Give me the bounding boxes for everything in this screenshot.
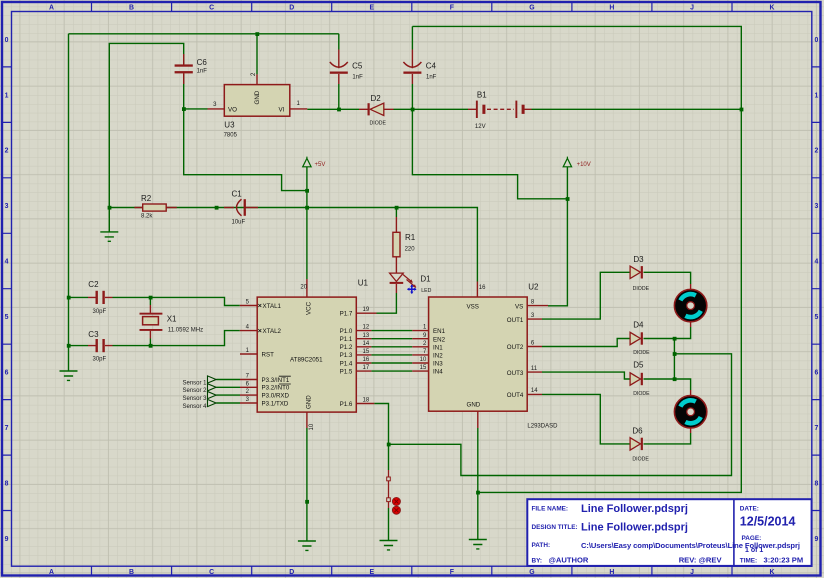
svg-text:7: 7	[814, 425, 818, 432]
svg-text:VSS: VSS	[467, 304, 479, 311]
wire ground top rail	[69, 33, 339, 35]
svg-text:15: 15	[363, 349, 370, 355]
wire D4-D5 mid link	[673, 339, 675, 380]
svg-text:Sensor 1: Sensor 1	[182, 380, 207, 386]
svg-text:P1.2: P1.2	[340, 344, 353, 351]
svg-text:GND: GND	[254, 90, 261, 104]
svg-text:A: A	[49, 4, 54, 11]
svg-text:F: F	[450, 569, 454, 576]
svg-text:XTAL1: XTAL1	[263, 303, 282, 310]
wire OUT1 to D3	[542, 272, 631, 319]
svg-text:H: H	[609, 4, 614, 11]
wire OUT4 to D6	[542, 394, 631, 444]
svg-text:PATH:: PATH:	[532, 542, 551, 549]
motor driver U2 L293D	[412, 282, 558, 430]
svg-text:GND: GND	[467, 402, 481, 409]
svg-text:G: G	[529, 569, 534, 576]
sensor 2 input	[182, 384, 216, 394]
svg-text:11: 11	[531, 366, 538, 372]
wire +5V rail	[109, 208, 477, 282]
wire C4 top rail	[412, 26, 741, 109]
wire XTAL1 net	[69, 297, 240, 305]
sensor 1 input	[182, 376, 216, 386]
capacitor C1 10uF	[224, 189, 258, 225]
svg-text:5: 5	[5, 314, 9, 321]
motor 1	[674, 284, 706, 327]
sensor 3 input	[182, 392, 216, 402]
svg-text:REV: @REV: REV: @REV	[679, 555, 723, 564]
svg-text:U3: U3	[224, 120, 235, 129]
title block	[527, 499, 811, 566]
svg-text:6: 6	[5, 370, 9, 377]
svg-text:P3.1/TXD: P3.1/TXD	[262, 400, 289, 407]
svg-text:3:20:23 PM: 3:20:23 PM	[764, 555, 804, 564]
svg-text:+10V: +10V	[577, 162, 591, 168]
power +5V	[303, 157, 326, 168]
svg-text:Sensor 2: Sensor 2	[182, 388, 207, 394]
wire OUT2 to D4	[542, 339, 631, 347]
wire U1 GND to ground	[306, 428, 308, 541]
svg-text:R1: R1	[405, 233, 416, 242]
svg-text:OUT1: OUT1	[507, 317, 524, 324]
svg-text:9: 9	[5, 536, 9, 543]
svg-text:8: 8	[814, 480, 818, 487]
diode D2	[359, 94, 394, 127]
svg-text:G: G	[529, 4, 534, 11]
wire motor2 bottom to D6	[644, 433, 691, 444]
svg-text:D5: D5	[633, 361, 644, 370]
svg-text:C1: C1	[232, 189, 243, 198]
svg-text:5: 5	[814, 314, 818, 321]
wire C5 bottom to main rail	[338, 34, 340, 110]
svg-text:11.0592 MHz: 11.0592 MHz	[168, 328, 203, 334]
wire D5 to motor2	[644, 379, 691, 390]
svg-text:VS: VS	[515, 304, 523, 311]
svg-text:DIODE: DIODE	[633, 286, 650, 292]
wire U1 P1.0..P1.5 to U2	[371, 331, 412, 372]
wire +10V vertical to U2 VS	[548, 167, 567, 306]
capacitor C5 1nF	[330, 50, 363, 85]
svg-text:Sensor 4: Sensor 4	[182, 404, 207, 410]
svg-text:8.2k: 8.2k	[141, 213, 153, 219]
push button	[387, 470, 401, 514]
svg-text:OUT2: OUT2	[507, 344, 524, 351]
svg-text:OUT4: OUT4	[507, 392, 524, 399]
diode D3	[630, 255, 649, 292]
wire P1.6 to button and motor mid	[374, 354, 731, 476]
svg-text:2: 2	[5, 148, 9, 155]
wire motor1 bottom to D4 line	[644, 327, 691, 339]
svg-text:OUT3: OUT3	[507, 370, 524, 377]
svg-text:D3: D3	[633, 255, 644, 264]
svg-text:C6: C6	[197, 58, 208, 67]
svg-text:GND: GND	[306, 395, 313, 409]
svg-text:R2: R2	[141, 194, 152, 203]
svg-text:19: 19	[363, 307, 370, 313]
wire XTAL2 net	[69, 331, 240, 346]
svg-text:30pF: 30pF	[93, 309, 107, 315]
wire button to ground	[388, 508, 390, 541]
svg-text:FILE NAME:: FILE NAME:	[532, 505, 569, 512]
svg-text:12: 12	[363, 325, 370, 331]
svg-text:P3.2/INT0: P3.2/INT0	[262, 385, 290, 392]
svg-text:10: 10	[309, 423, 315, 430]
capacitor C3 30pF	[88, 330, 113, 363]
wire sensor 2 to P3.2	[216, 386, 240, 388]
svg-text:220: 220	[405, 247, 416, 253]
svg-text:IN1: IN1	[433, 344, 443, 351]
wire +5V vertical to U1 VCC	[306, 167, 308, 279]
svg-text:3: 3	[5, 203, 9, 210]
svg-text:DIODE: DIODE	[633, 391, 650, 397]
svg-text:B: B	[129, 4, 134, 11]
svg-text:D1: D1	[420, 274, 431, 283]
svg-text:U2: U2	[528, 283, 539, 292]
wire +10V step from rail	[412, 109, 567, 199]
svg-text:H: H	[609, 569, 614, 576]
svg-text:Line Follower.pdsprj: Line Follower.pdsprj	[581, 521, 688, 533]
resistor R2 8.2k	[134, 194, 176, 219]
svg-text:10uF: 10uF	[232, 219, 246, 225]
svg-text:C3: C3	[88, 330, 99, 339]
svg-text:12/5/2014: 12/5/2014	[740, 514, 796, 528]
ground left C2/C3	[60, 371, 78, 380]
svg-text:1nF: 1nF	[352, 74, 363, 80]
svg-text:P3.3/INT1: P3.3/INT1	[262, 377, 290, 384]
svg-text:4: 4	[5, 259, 9, 266]
svg-text:Line Follower.pdsprj: Line Follower.pdsprj	[581, 503, 688, 515]
svg-text:10: 10	[420, 357, 427, 363]
svg-text:8: 8	[5, 480, 9, 487]
svg-text:K: K	[770, 569, 775, 576]
svg-text:EN2: EN2	[433, 336, 446, 343]
svg-text:F: F	[450, 4, 454, 11]
svg-text:16: 16	[363, 357, 370, 363]
diode D5	[630, 361, 650, 397]
svg-text:20: 20	[300, 284, 307, 290]
ground R2 branch	[100, 232, 118, 241]
svg-text:D: D	[289, 4, 294, 11]
svg-text:IN3: IN3	[433, 361, 443, 368]
svg-text:2: 2	[814, 148, 818, 155]
svg-text:VI: VI	[279, 106, 285, 113]
svg-text:A: A	[49, 569, 54, 576]
svg-text:18: 18	[363, 398, 370, 404]
micro U1 AT89C2051	[240, 279, 377, 431]
ground U2	[469, 540, 487, 549]
svg-text:15: 15	[420, 365, 427, 371]
svg-text:DESIGN TITLE:: DESIGN TITLE:	[532, 524, 578, 531]
svg-text:Sensor 3: Sensor 3	[182, 396, 207, 402]
svg-text:DIODE: DIODE	[370, 121, 387, 127]
svg-text:1: 1	[814, 92, 818, 99]
svg-text:DIODE: DIODE	[633, 350, 650, 356]
diode D6	[630, 427, 649, 463]
svg-text:U1: U1	[358, 279, 369, 288]
svg-text:13: 13	[363, 333, 370, 339]
LED D1	[390, 273, 432, 294]
svg-text:4: 4	[814, 259, 818, 266]
svg-text:TIME:: TIME:	[740, 557, 757, 564]
svg-text:C:\Users\Easy comp\Documents\P: C:\Users\Easy comp\Documents\Proteus\Lin…	[581, 541, 800, 550]
wire battery minus down to gnd rail	[478, 109, 742, 492]
wire sensor 3 to P3.0	[216, 394, 240, 396]
crystal X1 11.0592 MHz	[140, 305, 204, 339]
svg-text:6: 6	[814, 370, 818, 377]
svg-text:C: C	[209, 4, 214, 11]
diode D4	[630, 321, 650, 356]
svg-text:P1.4: P1.4	[340, 360, 353, 367]
svg-text:J: J	[690, 569, 694, 576]
wire C6-top / R2 ground branch	[109, 43, 183, 232]
svg-text:P1.1: P1.1	[340, 336, 353, 343]
svg-text:16: 16	[479, 285, 486, 291]
svg-text:P1.3: P1.3	[340, 352, 353, 359]
svg-text:0: 0	[5, 37, 9, 44]
svg-text:J: J	[690, 4, 694, 11]
svg-text:+5V: +5V	[315, 162, 326, 168]
wire U3 GND pin to top rail	[256, 34, 258, 75]
wire left vertical to ground	[68, 34, 70, 371]
power +10V	[563, 157, 591, 168]
svg-text:E: E	[369, 4, 374, 11]
svg-text:BY:: BY:	[532, 557, 543, 564]
svg-text:AT89C2051: AT89C2051	[290, 356, 323, 363]
capacitor C6 1nF	[175, 54, 208, 84]
wire U2 GND to ground	[477, 428, 479, 540]
svg-text:P1.6: P1.6	[340, 401, 353, 408]
svg-text:C4: C4	[426, 62, 437, 71]
resistor R1 220	[393, 217, 416, 273]
svg-text:@AUTHOR: @AUTHOR	[549, 555, 589, 564]
svg-text:14: 14	[363, 341, 370, 347]
svg-text:1nF: 1nF	[197, 68, 208, 74]
wire OUT3 to D5	[542, 372, 631, 379]
svg-text:EN1: EN1	[433, 328, 446, 335]
svg-text:VCC: VCC	[306, 301, 313, 315]
svg-text:XTAL2: XTAL2	[263, 328, 282, 335]
svg-text:LED: LED	[421, 288, 431, 294]
svg-text:P1.0: P1.0	[340, 328, 353, 335]
svg-text:1nF: 1nF	[426, 74, 437, 80]
svg-text:B1: B1	[477, 91, 487, 100]
svg-text:14: 14	[531, 388, 538, 394]
wire sensor 1 to P3.3	[216, 379, 240, 381]
battery B1 12V	[468, 91, 532, 130]
svg-text:P1.7: P1.7	[340, 311, 353, 318]
svg-text:P3.0/RXD: P3.0/RXD	[262, 392, 290, 399]
svg-text:1 of 1: 1 of 1	[745, 547, 763, 554]
ground button	[380, 541, 398, 550]
svg-text:7805: 7805	[224, 133, 238, 139]
svg-text:9: 9	[814, 536, 818, 543]
capacitor C4 1nF	[403, 50, 436, 85]
svg-text:C5: C5	[352, 62, 363, 71]
regulator U3 7805	[208, 72, 308, 139]
wire crystal stubs	[149, 297, 151, 345]
svg-text:PAGE:: PAGE:	[742, 535, 762, 542]
wire main 12V rail	[307, 108, 741, 110]
svg-text:D6: D6	[632, 427, 643, 436]
svg-text:17: 17	[363, 365, 370, 371]
wire sensor 4 to P3.1	[216, 402, 240, 404]
wire D3 to motor1	[644, 272, 691, 284]
svg-text:P1.5: P1.5	[340, 368, 353, 375]
svg-text:0: 0	[814, 37, 818, 44]
svg-text:D: D	[289, 569, 294, 576]
svg-text:30pF: 30pF	[93, 357, 107, 363]
svg-text:D4: D4	[633, 321, 644, 330]
svg-text:1: 1	[5, 92, 9, 99]
capacitor C2 30pF	[88, 280, 113, 315]
svg-text:RST: RST	[262, 351, 275, 358]
svg-text:IN4: IN4	[433, 369, 443, 376]
svg-text:K: K	[770, 4, 775, 11]
svg-text:DIODE: DIODE	[632, 456, 649, 462]
svg-text:3: 3	[814, 203, 818, 210]
svg-text:C2: C2	[88, 280, 99, 289]
svg-text:7: 7	[5, 425, 9, 432]
motor 2	[674, 390, 706, 433]
svg-text:12V: 12V	[475, 124, 486, 130]
svg-text:E: E	[369, 569, 374, 576]
svg-text:X1: X1	[167, 315, 177, 324]
wire R1 branch to P1.7	[377, 208, 397, 314]
svg-text:DATE:: DATE:	[740, 505, 759, 512]
svg-text:VO: VO	[228, 106, 237, 113]
ground U1	[298, 541, 316, 550]
svg-text:D2: D2	[371, 94, 382, 103]
sensor 4 input	[182, 399, 216, 409]
svg-text:IN2: IN2	[433, 353, 443, 360]
svg-text:C: C	[209, 569, 214, 576]
svg-text:L293DASD: L293DASD	[527, 423, 558, 429]
wire U3 VO to +5V step	[184, 73, 307, 190]
svg-text:B: B	[129, 569, 134, 576]
